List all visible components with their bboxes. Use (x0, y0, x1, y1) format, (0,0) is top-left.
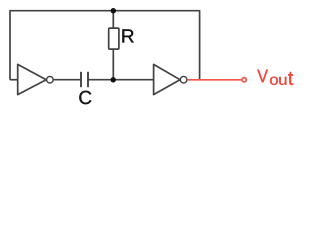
junction node top (111, 8, 116, 13)
capacitor C1 right plate (87, 72, 89, 87)
value label R (122, 29, 133, 42)
label Vout : t (288, 72, 293, 85)
inverter U1 bubble (47, 76, 54, 83)
wire output net (red) (187, 79, 241, 81)
capacitor C1 left plate (80, 72, 82, 87)
wire resistor branch lower (112, 49, 114, 80)
wire U1 output to capacitor (54, 79, 82, 81)
wire resistor branch upper (112, 11, 114, 28)
wire feedback loop: left vertical, top run, right vertical (10, 11, 200, 80)
wire capacitor to U2 input (88, 79, 154, 81)
junction node middle (111, 77, 116, 82)
label Vout : V (257, 70, 268, 83)
value label C (79, 91, 91, 104)
label Vout : o (270, 77, 278, 85)
wire input stub to U1 (10, 79, 18, 81)
inverter U2 bubble (180, 76, 187, 83)
label Vout : u (279, 77, 286, 85)
resistor R1 body (109, 28, 119, 49)
inverter U2 triangle (154, 64, 180, 94)
output terminal pin (242, 78, 246, 82)
inverter U1 triangle (18, 64, 47, 94)
